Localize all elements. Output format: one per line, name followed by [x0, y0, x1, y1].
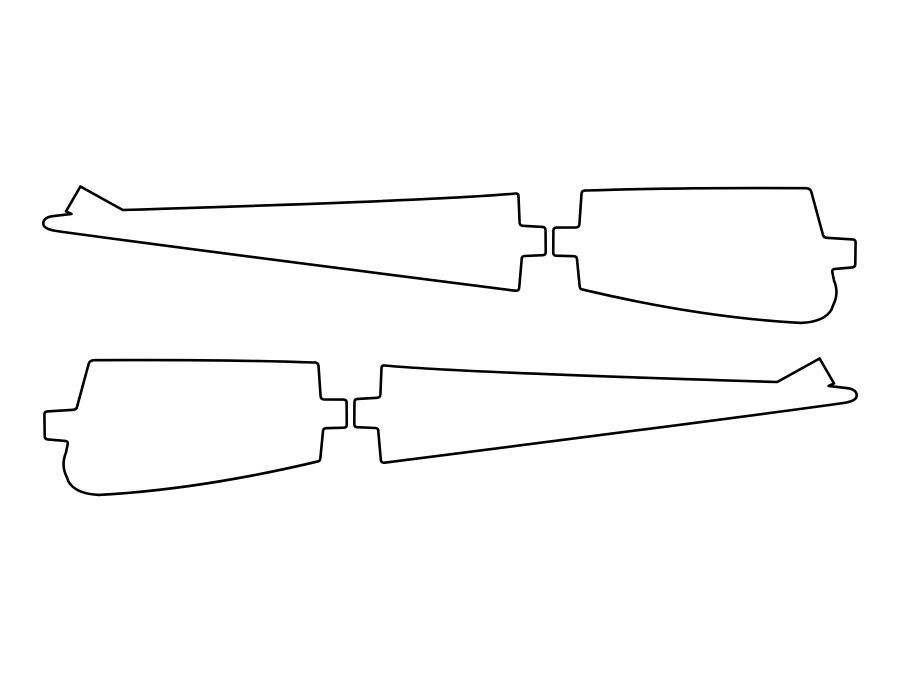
pattern piece P1: top-left tapered blade outline: [43, 187, 545, 291]
pattern piece P2: top-right panel outline with side tabs: [553, 188, 855, 323]
pattern piece P4: bottom-right tapered blade outline (mirror of P1): [354, 359, 856, 463]
pattern piece P3: bottom-left panel outline (mirror of P2): [44, 360, 346, 495]
